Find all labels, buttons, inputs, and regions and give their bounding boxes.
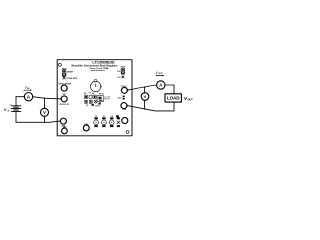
title subtitle xyxy=(71,64,117,72)
mounting hole top-left xyxy=(58,63,61,66)
svg-text:+: + xyxy=(22,92,24,94)
VOUT turret E5 xyxy=(121,86,128,94)
svg-text:VIN 2.5V-5.5V: VIN 2.5V-5.5V xyxy=(59,104,69,106)
svg-text:+: + xyxy=(154,81,156,83)
node junction bottom-left xyxy=(44,122,46,124)
wire A2 to LOAD xyxy=(165,85,174,94)
svg-text:V: V xyxy=(43,110,46,115)
jumper JP2 VOUT select xyxy=(117,67,126,79)
voltmeter V2 xyxy=(141,91,151,100)
board outline xyxy=(57,60,132,136)
svg-text:V: V xyxy=(144,94,147,99)
capacitor C11 optional xyxy=(117,117,120,127)
svg-text:BURST: BURST xyxy=(67,72,74,74)
svg-text:+: + xyxy=(39,106,41,108)
voltage source Vs xyxy=(4,97,21,123)
wire battery to GND terminal xyxy=(16,121,60,122)
svg-text:OUT: OUT xyxy=(188,98,194,101)
svg-text:A: A xyxy=(27,94,31,99)
jumper JP1 RUN xyxy=(62,68,78,79)
svg-text:+: + xyxy=(149,91,151,93)
label Iin with arrow xyxy=(24,86,32,91)
title LTC3565EDD xyxy=(92,61,115,65)
GND turret mid-bottom E8 xyxy=(83,124,89,131)
svg-text:S: S xyxy=(8,111,10,113)
label Iout with arrow xyxy=(156,71,164,77)
wire V1 bottom stub xyxy=(44,116,46,122)
ammeter A1 xyxy=(22,92,32,101)
capacitor COUT2 xyxy=(102,116,107,127)
capacitor pad C10 xyxy=(116,115,119,117)
svg-text:R2 1M: R2 1M xyxy=(99,93,104,95)
GND terminal E2 xyxy=(59,118,66,127)
wire V2 top stub xyxy=(144,87,146,93)
voltmeter V1 xyxy=(39,106,48,116)
node junction top-left xyxy=(44,97,46,99)
label Vout xyxy=(184,96,193,101)
wire VOUT turret to A2 xyxy=(127,85,156,90)
IC U1 and passive cluster xyxy=(84,92,110,107)
wire LOAD to GND turret xyxy=(127,103,174,111)
mounting hole bottom-right xyxy=(126,131,129,134)
GND turret E6 xyxy=(121,103,128,111)
wire A1 to VIN terminal xyxy=(33,97,61,99)
plus mark at LOAD top xyxy=(171,92,173,94)
svg-text:www.linear.com: www.linear.com xyxy=(91,70,106,72)
svg-text:IN: IN xyxy=(27,88,30,90)
SYNC/MODE turret E4 xyxy=(59,83,72,91)
capacitor COUT1 xyxy=(94,116,99,127)
capacitor COUT3 xyxy=(109,116,114,127)
VIN terminal E1 xyxy=(59,94,69,106)
wire battery to A1 xyxy=(16,96,24,98)
wire V1 top stub xyxy=(44,98,46,108)
load box LOAD xyxy=(165,94,181,102)
test point TP1 xyxy=(117,96,124,100)
svg-text:COUT: COUT xyxy=(117,97,121,99)
inductor L1 xyxy=(91,80,102,92)
svg-text:R1: R1 xyxy=(92,93,94,95)
wire V2 bottom stub xyxy=(144,100,146,109)
svg-text:C2: C2 xyxy=(89,93,91,95)
svg-text:A: A xyxy=(159,83,163,88)
svg-text:C1 10pF: C1 10pF xyxy=(104,97,110,99)
node junction V2 bottom xyxy=(144,108,146,110)
svg-text:PULSE SKIP: PULSE SKIP xyxy=(66,78,77,80)
node junction V2 top xyxy=(144,86,146,88)
svg-text:OUT: OUT xyxy=(158,73,163,75)
svg-text:R3 887k: R3 887k xyxy=(104,99,110,101)
GND turret E3 xyxy=(62,127,68,134)
ammeter A2 xyxy=(154,81,165,89)
svg-text:-: - xyxy=(11,116,12,120)
svg-text:C5 R5: C5 R5 xyxy=(95,105,99,107)
GND test turret E7 xyxy=(122,118,128,124)
svg-text:LOAD: LOAD xyxy=(167,96,180,101)
